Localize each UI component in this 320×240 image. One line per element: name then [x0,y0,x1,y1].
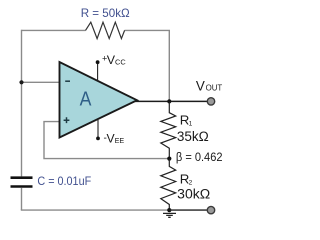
wire bottom ground rail [21,209,170,211]
wire top-left horizontal (left rail to resistor R) [22,29,86,31]
resistor R2 divider lower [161,159,176,211]
svg-text:1: 1 [189,120,193,127]
svg-text:EE: EE [115,136,125,145]
svg-text:CC: CC [115,57,126,66]
ground symbol [163,213,176,217]
-VEE supply dot [96,137,100,141]
svg-text:35kΩ: 35kΩ [177,129,209,144]
op-amp minus input symbol [65,80,70,82]
svg-text:R = 50kΩ: R = 50kΩ [81,6,130,20]
op-amp U1 triangle [60,62,138,138]
resistor R1 divider upper [161,101,176,158]
wire left rail upper (inverting input rail) [21,30,23,177]
svg-text:30kΩ: 30kΩ [177,186,210,201]
wire non-inverting feedback path [44,122,169,159]
wire inverting input [22,81,60,83]
svg-text:OUT: OUT [206,84,223,93]
node ground junction dot [167,208,171,212]
svg-text:C = 0.01uF: C = 0.01uF [37,174,91,188]
op-amp plus input symbol [64,117,70,123]
svg-text:A: A [80,89,92,111]
wire left rail lower (capacitor to ground rail) [21,188,23,210]
resistor R feedback zigzag [86,22,125,38]
node junction dot at inverting input / left rail [19,80,23,84]
node beta junction dot [167,157,171,161]
wire ground to bottom terminal [169,209,207,211]
capacitor C plates [11,178,33,187]
+VCC supply dot [96,60,100,64]
node output junction dot [167,99,171,103]
svg-text:β = 0.462: β = 0.462 [176,150,223,164]
svg-text:2: 2 [189,179,193,186]
terminal ground pad [207,206,214,213]
svg-text:V: V [196,79,205,94]
wire top-right horizontal and vertical down to output node [125,30,170,101]
terminal VOUT pad [207,98,214,105]
wire op-amp output [135,100,207,102]
+VCC supply stub [97,62,99,81]
-VEE supply stub [97,120,99,139]
